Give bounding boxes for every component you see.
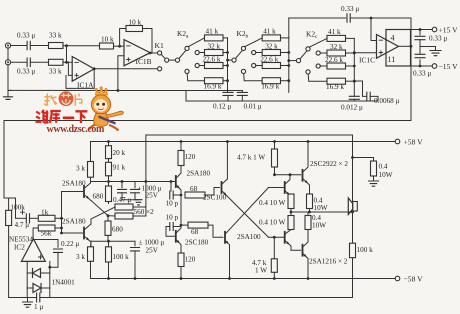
wire bus2 to K2c pole: [289, 60, 297, 62]
wire R24 to node: [55, 217, 62, 219]
resistor R11 22.6k: [262, 63, 280, 69]
capacitor C14 1u: [37, 293, 40, 302]
junction rail 120: [180, 140, 183, 143]
wire Q7 emitter to R32: [285, 191, 291, 197]
wire C12 to R24: [30, 217, 39, 219]
wire K2a to R 41k: [188, 38, 204, 47]
wire R26 to rail: [108, 262, 110, 279]
wire C3 to IC1C output: [350, 17, 411, 19]
junction IC1C minus feed: [370, 17, 373, 20]
resistor R35 0.4 10W: [305, 216, 311, 230]
capacitor C7 0.01u: [241, 91, 243, 93]
svg-text:1N4001: 1N4001: [52, 279, 76, 287]
wire: [346, 80, 355, 82]
wire IC1C out to power amp input: [4, 46, 411, 218]
switch K2b lever: [236, 50, 243, 58]
wire D1 right: [41, 272, 50, 274]
wire: [256, 52, 262, 54]
wire C1 to R1: [31, 45, 49, 47]
wire C4 to ground: [420, 40, 436, 50]
bus node after K2c: [353, 38, 355, 96]
junction bus x145: [145, 180, 148, 183]
wire: [199, 65, 204, 67]
wire R25 to IC2 out: [33, 228, 38, 239]
transistor Q2 2SA180: [83, 228, 85, 239]
svg-text:41 k: 41 k: [206, 28, 219, 36]
wire J2 to ground: [7, 65, 9, 97]
resistor R14 32k: [327, 50, 346, 56]
wire to Q6 base: [275, 174, 301, 176]
emitter arrow Q9: [303, 254, 306, 257]
watermark text weiku: [36, 110, 88, 123]
wire R31 bottom: [274, 167, 276, 175]
svg-text:0.01 μ: 0.01 μ: [244, 103, 262, 111]
wire R22 to -58V rail: [90, 261, 92, 278]
svg-text:25V: 25V: [146, 192, 159, 200]
bootstrap bus wire: [91, 181, 172, 183]
node input: [60, 217, 63, 220]
wire C16 to emitter node: [173, 194, 181, 196]
+58V rail: [91, 141, 396, 143]
svg-text:3 k: 3 k: [76, 165, 85, 173]
wire R20 bottom: [108, 202, 110, 204]
wire R20b to bias row: [107, 235, 109, 241]
wire Q2 collector up: [90, 219, 92, 224]
capacitor C16 10p: [170, 182, 172, 192]
resistor R25 56k: [38, 225, 55, 231]
resistor R31 4.7k 1W: [272, 149, 278, 167]
wire to IC1A plus: [68, 62, 72, 75]
wire Q4 collector to rail: [222, 142, 228, 185]
resistor R34 0.4 10W: [288, 216, 294, 230]
junction Q2 base: [60, 232, 63, 235]
wire C13 bottom: [50, 252, 58, 267]
switch K2a contact 41k: [185, 46, 189, 50]
wire R23 to bottom return: [8, 226, 10, 298]
svg-text:0.12 μ: 0.12 μ: [213, 103, 231, 111]
wire C17 right: [173, 226, 181, 228]
svg-text:22.6 k: 22.6 k: [325, 56, 343, 64]
ground IC2: [23, 302, 33, 307]
wire R35 top: [307, 212, 309, 216]
wire Q1 collector: [84, 183, 91, 189]
ground bus wire: [8, 89, 242, 91]
emitter arrow Q6: [305, 180, 308, 183]
svg-text:16.9 k: 16.9 k: [261, 82, 279, 90]
wire: [187, 74, 204, 81]
wire Q3-Q5 column: [180, 195, 182, 225]
svg-text:K2b: K2b: [237, 29, 249, 40]
transistor Q1 2SA180: [83, 186, 85, 197]
bottom return wire left: [9, 297, 37, 299]
svg-text:+58 V: +58 V: [404, 138, 424, 147]
resistor R36 4.7k 1W: [271, 259, 277, 273]
capacitor C3 0.33u feedback: [347, 14, 350, 23]
svg-text:20 k: 20 k: [113, 149, 126, 157]
svg-text:100 k: 100 k: [113, 253, 130, 261]
wire: [308, 74, 327, 81]
svg-text:IC1C: IC1C: [359, 56, 375, 65]
resistor R12 16.9k: [262, 78, 280, 84]
wire: [346, 65, 355, 67]
wire Q8b collector to R34: [285, 230, 291, 235]
wire Q5 emitter: [176, 239, 181, 253]
wire R25 to node: [55, 227, 62, 229]
svg-text:2SA1216 × 2: 2SA1216 × 2: [309, 258, 348, 266]
switch K1 lever: [161, 55, 165, 59]
svg-text:1k: 1k: [41, 209, 49, 217]
resistor R13 41k: [327, 35, 346, 41]
svg-text:680: 680: [93, 193, 104, 201]
svg-text:2SA180: 2SA180: [62, 180, 86, 188]
wire cross A: [91, 201, 108, 216]
svg-text:0.33 μ: 0.33 μ: [17, 32, 35, 40]
capacitor C4 plates: [415, 36, 425, 39]
resistor R22 3k: [88, 247, 94, 261]
wire: [320, 65, 327, 67]
wire R23 top: [8, 198, 10, 210]
switch K2c pole: [296, 59, 300, 63]
wire Q9 emitter to rail: [303, 253, 309, 278]
capacitor C9 0.0068u: [354, 81, 366, 96]
op-amp IC1A: [72, 57, 94, 82]
watermark mascot: [44, 87, 123, 131]
capacitor C17 10p: [170, 223, 173, 231]
wire Q4 emitter cross: [222, 191, 269, 238]
svg-text:11: 11: [388, 55, 396, 64]
switch K1 pole a: [165, 58, 169, 62]
terminal +15V: [432, 27, 437, 32]
svg-text:10 k: 10 k: [101, 36, 114, 44]
svg-text:4.7 μ: 4.7 μ: [15, 221, 30, 229]
resistor R9 41k: [262, 35, 280, 41]
svg-text:0.33 μ: 0.33 μ: [413, 70, 431, 78]
svg-text:www.dzsc.com: www.dzsc.com: [47, 124, 105, 135]
svg-text:K1: K1: [155, 41, 164, 50]
resistor R21a 560: [115, 204, 133, 210]
speaker LS1: [353, 202, 358, 212]
resistor R37 0.4 10W: [371, 161, 377, 176]
wire ground to bus: [8, 89, 11, 91]
wire: [244, 74, 263, 81]
resistor R19 91k: [106, 162, 112, 176]
wire to R36: [273, 237, 275, 258]
junction Q6 base row: [273, 173, 276, 176]
svg-text:32 k: 32 k: [265, 43, 278, 51]
wire speaker to R38: [352, 212, 354, 243]
switch K2c contact 41k: [306, 47, 310, 51]
svg-text:33 k: 33 k: [49, 68, 62, 76]
switch K2c contact 16.9k: [306, 70, 310, 74]
wire: [256, 65, 262, 67]
wire to 560b: [108, 215, 115, 217]
junction R36 top: [273, 236, 276, 239]
resistor R1 33k: [49, 43, 64, 49]
wire bus1 to K2b pole: [228, 59, 232, 61]
resistor R2 33k: [49, 59, 64, 65]
resistor R17 3k: [88, 162, 94, 178]
junction rail R31: [273, 140, 276, 143]
IC1C power box: [386, 30, 411, 67]
input terminal J2: [5, 60, 10, 65]
transistor Q6 2SC2922: [302, 170, 304, 181]
svg-text:2SA180: 2SA180: [62, 218, 86, 226]
resistor R28 120: [178, 253, 184, 267]
wire R3 to IC1B minus: [114, 45, 125, 47]
svg-text:0.4: 0.4: [379, 163, 388, 171]
svg-text:IC2: IC2: [14, 244, 25, 252]
wire: [199, 52, 204, 54]
capacitor C15 1000u 25V: [134, 241, 136, 246]
switch K2c contact 22.6k: [316, 64, 320, 68]
wire J1 to C1: [11, 45, 27, 47]
svg-text:56k: 56k: [41, 230, 52, 238]
svg-text:K2c: K2c: [306, 30, 318, 41]
wire: [223, 80, 228, 82]
capacitor C8 0.012u: [349, 96, 359, 99]
diode D1 1N4001: [33, 269, 41, 278]
wire down to IC1C out: [410, 18, 412, 46]
node IC1B out: [149, 52, 152, 55]
resistor R29 68: [185, 192, 205, 198]
op-amp IC1C: [377, 35, 399, 59]
wire Q8 collector cross: [225, 188, 269, 235]
switch K2b contact 22.6k: [252, 63, 256, 67]
svg-text:2SC180: 2SC180: [185, 239, 209, 247]
capacitor C1 0.33u: [27, 41, 30, 50]
wire Q8b emitter to Q9 base: [285, 240, 301, 250]
ground input stem bar: [4, 97, 13, 100]
svg-text:41 k: 41 k: [263, 28, 276, 36]
op-amp IC1B: [124, 40, 150, 66]
svg-text:K2a: K2a: [177, 29, 189, 40]
svg-text:−58 V: −58 V: [404, 275, 424, 284]
emitter arrow Q7: [286, 192, 289, 195]
wire IC1B plus to ground bus: [118, 56, 124, 91]
svg-text:+15 V: +15 V: [439, 26, 459, 35]
switch K2c contact 32k: [316, 51, 320, 55]
transistor Q8b 2SA100 pair: [284, 232, 286, 243]
wire R34 top: [290, 212, 292, 216]
resistor R20b 680: [105, 221, 111, 235]
svg-text:IC1B: IC1B: [136, 57, 152, 66]
svg-text:32 k: 32 k: [208, 43, 221, 51]
bus node after K2b: [288, 38, 290, 93]
wire Q2 emitter to R22: [84, 236, 91, 247]
wire to ground: [27, 298, 29, 303]
svg-text:0.0068 μ: 0.0068 μ: [374, 97, 400, 105]
wire bus3 to IC1C plus: [354, 52, 376, 54]
wire rail to R18: [108, 142, 110, 146]
wire K2c to R 41k: [309, 38, 327, 47]
switch K2a contact 22.6k: [195, 63, 199, 67]
polarity mark C12: [21, 210, 25, 214]
wire R19 to R20: [108, 176, 110, 186]
svg-text:10 p: 10 p: [166, 200, 179, 208]
junction IC2 input: [48, 266, 51, 269]
wire cap bottom to ground: [122, 199, 139, 201]
terminal +58V: [395, 139, 400, 144]
wire: [281, 65, 289, 67]
wire: [16, 217, 27, 219]
resistor R10 32k: [262, 50, 280, 56]
svg-text:NE5534: NE5534: [9, 236, 33, 244]
resistor R18 20k: [106, 146, 112, 159]
transistor Q5 2SC180: [175, 231, 177, 242]
wire to R37: [353, 158, 374, 162]
wire to R20b: [107, 216, 109, 221]
resistor R24 1k: [38, 215, 55, 221]
emitter arrow Q2: [86, 237, 89, 240]
wire K1 pole link: [169, 59, 176, 61]
svg-text:680: 680: [112, 226, 123, 234]
svg-text:0.33 μ: 0.33 μ: [17, 68, 35, 76]
svg-text:2SA180: 2SA180: [187, 170, 211, 178]
node IC1C out: [410, 45, 413, 48]
wire R36 to rail: [273, 272, 275, 278]
capacitor C4 0.33u: [419, 30, 421, 35]
emitter arrow Q8 2SA100: [225, 241, 228, 244]
resistor R3 10k: [100, 43, 114, 49]
transistor Q3 2SA180: [175, 176, 177, 187]
emitter arrow Q1: [86, 196, 89, 199]
svg-text:0.4 10 W: 0.4 10 W: [259, 199, 286, 207]
junction bootstrap bus: [107, 180, 110, 183]
svg-text:1 W: 1 W: [255, 267, 267, 275]
svg-text:−15 V: −15 V: [439, 62, 459, 71]
svg-text:16.9 k: 16.9 k: [204, 82, 222, 90]
svg-text:120: 120: [185, 256, 196, 264]
svg-text:33 k: 33 k: [49, 32, 62, 40]
wire: [346, 52, 355, 54]
capacitor C2 0.33u: [27, 58, 30, 67]
transistor Q8 2SA100: [224, 232, 226, 243]
resistor R38 100k: [350, 243, 356, 258]
resistor R26 100k: [106, 247, 112, 262]
terminal -58V: [395, 276, 400, 281]
wire to K1: [150, 52, 157, 54]
wire J2 to C2: [11, 61, 27, 63]
wire input node column: [61, 192, 63, 234]
wire R38 down to return: [352, 258, 354, 298]
svg-text:91 k: 91 k: [113, 164, 126, 172]
svg-text:32 k: 32 k: [330, 43, 343, 51]
wire Q3 base: [171, 181, 176, 183]
capacitor C5 plates: [415, 54, 425, 57]
wire: [281, 80, 289, 82]
feedback wire up: [120, 29, 126, 47]
wire bus2 up: [288, 18, 290, 38]
bias row wire: [91, 240, 135, 242]
svg-text:100 k: 100 k: [357, 246, 374, 254]
switch K2b contact 16.9k: [241, 69, 245, 73]
resistor R27 120: [178, 151, 184, 166]
wire R29 to Q4 base: [205, 188, 219, 196]
node IC1A out: [93, 67, 96, 70]
switch K2a contact 16.9k: [185, 69, 189, 73]
capacitor ground bus: [186, 100, 378, 102]
switch K2b pole: [232, 58, 236, 62]
transistor Q9 2SA1216: [302, 245, 304, 256]
transistor Q4 2SC100: [221, 182, 223, 193]
svg-text:560 ×2: 560 ×2: [134, 208, 155, 216]
wire Q2 base: [62, 232, 85, 234]
wire: [320, 52, 327, 54]
wire to C3: [289, 17, 346, 19]
wire R17 to Q1 collector: [90, 177, 92, 183]
resistor R20 680: [106, 186, 112, 202]
resistor R30 68: [188, 222, 208, 228]
resistor R16 16.9k: [327, 78, 346, 84]
feedback wire down to IC1B out: [143, 29, 153, 54]
emitter arrow Q4: [223, 192, 226, 195]
ground near IC1C: [430, 51, 441, 56]
-58V rail: [91, 278, 396, 280]
junction rail Q4: [226, 140, 229, 143]
wire C5 up: [419, 47, 421, 55]
ground R37: [369, 181, 379, 186]
wire Q5 collector: [176, 225, 181, 233]
capacitor C12 4.7u: [26, 214, 29, 223]
feedback wire IC1A: [66, 69, 94, 89]
wire: [90, 241, 93, 247]
switch K2a lever: [179, 50, 186, 58]
wire C2 to R2: [31, 61, 49, 63]
bus node after K2a: [227, 38, 229, 93]
wire IC2 right rail: [49, 261, 51, 297]
svg-text:100k: 100k: [11, 204, 26, 212]
junction rail Q9: [307, 277, 310, 280]
switch K1 contact IC1B: [158, 51, 162, 55]
wire Q1 emitter: [84, 195, 91, 201]
junction rail R18: [107, 140, 110, 143]
wire pin11 to -15V: [411, 65, 433, 67]
resistor R7 22.6k: [205, 63, 224, 69]
svg-text:68: 68: [191, 228, 199, 236]
wire IC2 output row: [33, 239, 58, 241]
input terminal J1: [5, 43, 10, 48]
svg-text:22.6 k: 22.6 k: [260, 56, 278, 64]
wire: [108, 241, 110, 247]
junction Q3 base: [170, 180, 173, 183]
op-amp IC2 NE5534 (pointing down): [21, 239, 45, 262]
svg-text:2SA100: 2SA100: [237, 233, 261, 241]
switch K2b contact 32k: [252, 50, 256, 54]
wire R2 to IC1A minus: [63, 61, 72, 63]
resistor R15 22.6k: [327, 63, 346, 69]
wire bootstrap to speaker top: [146, 135, 353, 202]
wire to IC1A inverting input: [66, 46, 68, 63]
node top33k: [65, 44, 68, 47]
output node row: [291, 211, 353, 213]
svg-text:68: 68: [190, 185, 198, 193]
wire IC2 left rail: [26, 261, 28, 297]
capacitor C6 0.12u: [223, 92, 233, 95]
wire to IC1C minus: [371, 18, 377, 41]
wire 560b to column: [133, 215, 146, 217]
wire R1 to R3 10k: [63, 45, 100, 47]
svg-text:10W: 10W: [379, 171, 393, 179]
junction rail Q8: [228, 277, 231, 280]
wire IC1C output: [399, 45, 412, 47]
wire: [281, 37, 289, 39]
wire: [281, 52, 289, 54]
junction rail Q6: [307, 140, 310, 143]
junction 560b 680b: [107, 214, 110, 217]
wire Q6 emitter to R33: [303, 178, 310, 194]
capacitor C5 0.33u: [419, 60, 421, 66]
wire R32 to out: [290, 209, 292, 213]
